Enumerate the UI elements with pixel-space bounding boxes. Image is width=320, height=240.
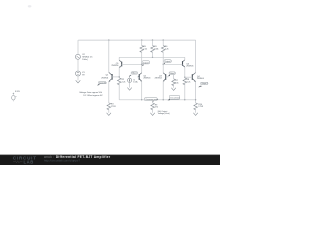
node Q6 base junction xyxy=(163,64,164,65)
svg-text:Voltage Gain approx 50k: Voltage Gain approx 50k xyxy=(79,91,103,94)
ground xyxy=(193,113,197,116)
svg-text:100k: 100k xyxy=(154,49,158,51)
wire Q5 emitter down xyxy=(118,67,120,78)
flag Common mode box xyxy=(145,98,159,102)
resistor R5 xyxy=(140,46,144,53)
flag Output2col xyxy=(163,60,171,65)
wire Q1 emitter xyxy=(108,82,110,103)
svg-text:Vbias1: Vbias1 xyxy=(132,73,137,75)
flag Output1 xyxy=(142,61,150,66)
wire R1 to cascode wire xyxy=(152,52,154,58)
wire R5 to Q2 collector xyxy=(141,52,143,73)
svg-text:27k: 27k xyxy=(155,107,158,109)
svg-text:1kHz): 1kHz) xyxy=(82,59,88,61)
transistor Q6 xyxy=(163,60,185,68)
wire R6 drop xyxy=(162,40,164,45)
svg-text:Q1: Q1 xyxy=(106,75,110,77)
flag VB1 xyxy=(129,72,140,77)
resistor R9 xyxy=(151,103,155,110)
flag Input left xyxy=(97,81,107,85)
ground xyxy=(127,88,131,91)
ground xyxy=(76,80,81,83)
footer logo zigzag xyxy=(13,161,22,163)
wire Q6 emitter down xyxy=(184,67,186,78)
node bottom junction dots xyxy=(141,99,142,100)
transistor Q5 xyxy=(119,60,142,68)
resistor R7 xyxy=(172,79,176,86)
svg-text:Output 1: Output 1 xyxy=(143,61,150,64)
resistor R1 xyxy=(151,46,155,53)
node Q4 base junction xyxy=(184,77,185,78)
wire left supply drop xyxy=(77,40,79,54)
svg-text:Output 2: Output 2 xyxy=(165,60,172,63)
wire Q6 collector corner xyxy=(184,57,186,60)
wire Q4 collector drop xyxy=(195,40,197,73)
svg-text:9V: 9V xyxy=(82,74,85,76)
flag common gnd on rail xyxy=(168,95,180,100)
wire bottom rail xyxy=(119,99,195,101)
wire R10 to ground xyxy=(195,110,197,113)
svg-text:Output 2: Output 2 xyxy=(201,82,208,85)
wire R3 to ground xyxy=(108,110,110,113)
node rail junction dots xyxy=(108,39,109,40)
wire Q1 collector drop xyxy=(108,40,110,72)
wire R5 drop xyxy=(141,40,143,45)
resistor R2 xyxy=(117,78,121,85)
ground xyxy=(150,113,154,116)
svg-text:2.2k: 2.2k xyxy=(143,49,147,51)
wire below V1 xyxy=(77,76,79,80)
svg-text:Common mode: Common mode xyxy=(145,99,158,101)
wire R9 top xyxy=(152,101,154,103)
wire R2 to bottom rail xyxy=(118,83,120,100)
ground xyxy=(171,88,175,91)
voltage source V1 xyxy=(76,71,81,76)
svg-text:http://circuitlab.com/c/qrtpv7: http://circuitlab.com/c/qrtpv7 xyxy=(44,159,80,163)
node Q5 base junction xyxy=(141,64,142,65)
footer bar xyxy=(0,155,220,165)
wire Q3 emitter xyxy=(162,81,164,100)
transistor Q3 xyxy=(163,73,168,82)
wire R6 to Q3 collector xyxy=(162,52,164,73)
wire R7 to ground xyxy=(173,84,175,88)
resistor R6 xyxy=(161,46,165,53)
svg-text:175R: 175R xyxy=(198,106,203,108)
resistor R8 xyxy=(183,78,187,85)
wire top supply rail xyxy=(78,39,195,41)
wire R8 to bottom rail xyxy=(184,83,186,100)
svg-text:DC Offset approx 0V: DC Offset approx 0V xyxy=(83,94,103,97)
wire Q5 collector corner xyxy=(118,57,120,60)
voltmeter M1 xyxy=(12,91,21,102)
resistor R3 xyxy=(107,103,111,110)
transistor Q1 xyxy=(109,72,120,82)
transistor Q4 xyxy=(185,73,196,83)
svg-text:2.2k: 2.2k xyxy=(165,49,169,51)
wire Q4 emitter xyxy=(195,82,197,103)
svg-text:2N3904: 2N3904 xyxy=(101,77,109,79)
node Q1 base junction xyxy=(119,76,120,77)
current source I1 xyxy=(128,76,132,88)
resistor R10 xyxy=(194,103,198,110)
wire R7 top xyxy=(173,75,175,79)
svg-text:2.2k: 2.2k xyxy=(187,82,191,84)
ground xyxy=(107,113,111,116)
svg-text:Input (V2): Input (V2) xyxy=(99,81,107,84)
svg-text:2N3904: 2N3904 xyxy=(143,78,151,80)
svg-text:10k: 10k xyxy=(175,82,178,84)
wire R1 drop xyxy=(152,40,154,45)
svg-text:Voltage (Vout): Voltage (Vout) xyxy=(158,112,170,115)
svg-text:2.2k: 2.2k xyxy=(122,81,126,83)
svg-text:2N3904: 2N3904 xyxy=(197,78,205,80)
voltage source V2 xyxy=(75,54,80,59)
flag Output2 xyxy=(198,82,208,87)
svg-text:2N3904: 2N3904 xyxy=(155,78,163,80)
faint smudge top-left xyxy=(28,5,32,7)
wire between sources xyxy=(77,59,79,71)
wire long cascode wire xyxy=(119,56,185,58)
svg-text:2N3906: 2N3906 xyxy=(111,65,119,67)
svg-text:Out common: Out common xyxy=(170,96,180,99)
svg-text:175R: 175R xyxy=(111,106,116,108)
wire R9 to ground xyxy=(152,110,154,113)
svg-text:2N3906: 2N3906 xyxy=(186,66,194,68)
wire Q2 emitter xyxy=(141,81,143,100)
flag Q3 base xyxy=(168,72,176,76)
svg-text:8.99V: 8.99V xyxy=(15,91,20,93)
transistor Q2 xyxy=(138,73,142,82)
svg-text:Vbias2: Vbias2 xyxy=(170,73,175,75)
svg-text:1mA: 1mA xyxy=(133,81,138,84)
svg-text:LAB: LAB xyxy=(24,159,34,164)
